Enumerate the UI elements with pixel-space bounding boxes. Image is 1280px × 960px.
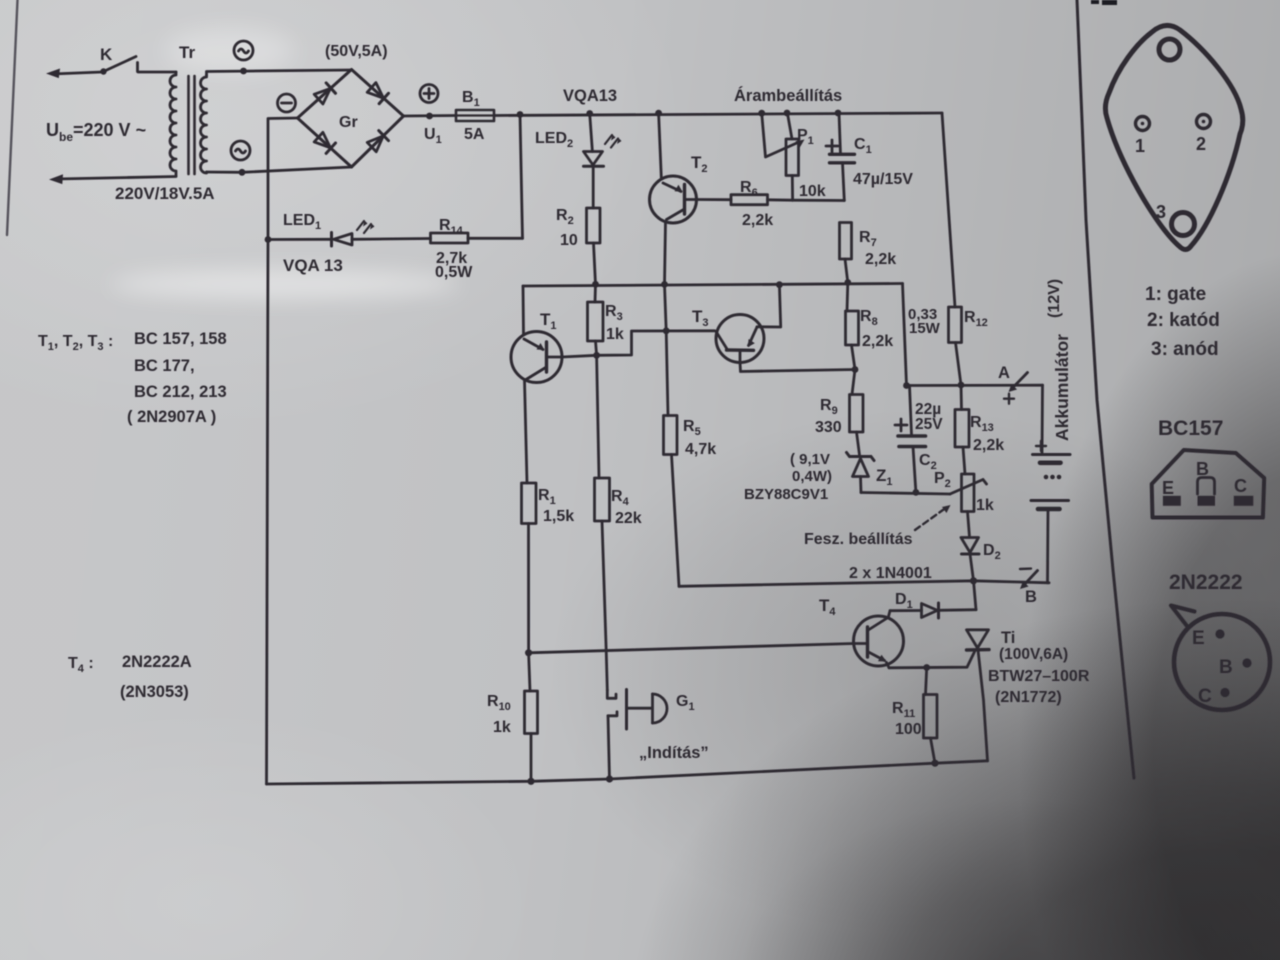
svg-text:VQA 13: VQA 13 [283, 256, 343, 275]
svg-text:BTW27–100R: BTW27–100R [988, 668, 1090, 685]
svg-text:Gr: Gr [339, 114, 358, 131]
dashed arrow head [942, 505, 951, 513]
svg-text:T1: T1 [540, 310, 557, 332]
label 330 [815, 419, 842, 436]
label Ti [1001, 629, 1015, 647]
LED1 [268, 233, 431, 247]
label LED2 [535, 130, 573, 150]
2N2222 tab [1171, 606, 1195, 627]
svg-text:1: gate: 1: gate [1145, 284, 1206, 305]
label 47u/15V [853, 171, 913, 188]
svg-text:C: C [1234, 476, 1247, 496]
transistor T3 [716, 285, 855, 372]
label B [1025, 588, 1037, 606]
svg-text:3: anód: 3: anód [1151, 339, 1219, 360]
svg-text:T4 :: T4 : [68, 655, 94, 675]
cut-off marks top edge [1091, 0, 1117, 5]
svg-text:R7: R7 [859, 229, 877, 249]
svg-text:R1: R1 [538, 487, 556, 507]
svg-text:D1: D1 [895, 591, 913, 611]
svg-text:( 2N2907A ): ( 2N2907A ) [127, 408, 216, 426]
svg-text:P2: P2 [934, 470, 951, 490]
label 1: gate [1145, 284, 1206, 305]
transformer secondary winding [201, 75, 207, 173]
BC157 leads [1163, 496, 1253, 506]
label pin 3 [1156, 202, 1166, 222]
terminal A arrow [1009, 373, 1028, 393]
svg-text:2: 2 [1196, 134, 1206, 154]
wire rail right corner down to R12 [942, 113, 955, 307]
label T1 [540, 310, 557, 332]
label E lead [1162, 478, 1174, 498]
resistor R9 [850, 370, 864, 456]
potentiometer P1 [762, 113, 805, 200]
label R12 [964, 309, 988, 329]
svg-text:22k: 22k [615, 510, 642, 527]
svg-text:T4: T4 [819, 596, 836, 618]
wire T4 emitter to Ti gate [889, 652, 975, 671]
transformer core [189, 76, 195, 174]
svg-text:Akkumulátor: Akkumulátor [1052, 334, 1072, 441]
bridge diode top-right [367, 82, 389, 103]
label 9,1V [790, 451, 830, 468]
label 100V 6A [999, 646, 1068, 663]
resistor R2 [587, 208, 601, 284]
label 220V/18V 5A [115, 184, 215, 203]
label B1 [462, 89, 480, 109]
label 15W [909, 320, 941, 337]
label 2,2k R7 [865, 251, 896, 268]
svg-text:2,2k: 2,2k [973, 437, 1004, 454]
svg-text:4,7k: 4,7k [685, 441, 716, 458]
label 1k R3 [606, 326, 624, 343]
wire bus dot down to D1 line [974, 581, 977, 610]
label D2 [983, 542, 1001, 562]
label 22u [915, 401, 941, 418]
label VQA 13 [283, 256, 343, 275]
wire mains lower with arrow [49, 174, 176, 184]
label R1 [538, 487, 556, 507]
label 1k R10 [493, 719, 511, 736]
label 10 [560, 232, 578, 249]
TO-3 pin 1 [1136, 117, 1150, 131]
terminal B arrow [1020, 571, 1038, 590]
label 0,33 [908, 306, 937, 323]
thyristor Ti [967, 630, 990, 761]
label B lead [1196, 459, 1209, 479]
svg-text:T2: T2 [691, 153, 708, 175]
label R2 [556, 207, 574, 227]
BC157 package outline [1152, 450, 1265, 518]
wire second bus [523, 279, 903, 288]
label R9 [820, 397, 838, 417]
label C pin [1198, 686, 1230, 707]
label Tr [179, 43, 195, 62]
wire base jog to T3 [597, 331, 715, 356]
bridge diode bottom-left [314, 132, 336, 153]
label 2,2k R13 [973, 437, 1004, 454]
svg-text:C2: C2 [919, 452, 937, 472]
label Gr [339, 114, 358, 131]
label transistor equivalents T4 [68, 653, 192, 701]
plus terminal circle [420, 85, 438, 103]
label R4 [611, 488, 630, 508]
diode D1 [890, 603, 976, 618]
svg-text:T1, T2, T3 :: T1, T2, T3 : [38, 333, 113, 353]
AC terminal circle bottom [231, 141, 250, 160]
svg-text:5A: 5A [464, 126, 485, 143]
paper edge top-left [7, 0, 18, 235]
label K [100, 45, 113, 64]
transistor T1 [511, 332, 597, 484]
svg-text:„Indítás”: „Indítás” [639, 744, 709, 762]
label BC157 [1158, 417, 1223, 440]
svg-text:2 x 1N4001: 2 x 1N4001 [849, 565, 932, 582]
label 2N2222 [1169, 571, 1243, 594]
node T3 base / R5 junction [663, 327, 670, 334]
svg-text:E: E [1162, 478, 1174, 498]
wire inner bottom bus [679, 577, 1049, 586]
svg-text:BC157: BC157 [1158, 417, 1223, 440]
label 100 [895, 721, 922, 738]
label E pin [1192, 628, 1225, 649]
capacitor C2 [898, 385, 926, 492]
svg-text:100: 100 [895, 721, 922, 738]
label R8 [860, 308, 878, 328]
svg-text:A: A [998, 364, 1010, 382]
svg-text:2,2k: 2,2k [862, 333, 893, 350]
label 3: anod [1151, 339, 1219, 360]
label 22k [615, 510, 642, 527]
LED1 emission arrows [357, 221, 375, 234]
svg-text:3: 3 [1156, 202, 1166, 222]
label Akkumulator rotated [1052, 334, 1072, 441]
plus sign C1 [826, 140, 838, 152]
label Inditas [639, 744, 709, 762]
svg-text:2N2222: 2N2222 [1169, 571, 1243, 594]
svg-text:B: B [1219, 657, 1233, 678]
LED2 emission arrows [605, 135, 622, 148]
AC terminal circle top [234, 41, 253, 60]
label R13 [970, 414, 994, 434]
svg-text:Ube=220 V ~: Ube=220 V ~ [46, 120, 146, 144]
plus sign C2 [895, 419, 907, 431]
svg-text:D2: D2 [983, 542, 1001, 562]
label 2,2k R6 [742, 212, 773, 229]
svg-text:(50V,5A): (50V,5A) [325, 43, 388, 60]
svg-text:K: K [100, 45, 113, 64]
transistor T2 [650, 113, 732, 284]
svg-text:R10: R10 [487, 693, 511, 713]
TO-3 top mounting hole [1159, 39, 1180, 60]
wire Z1 node to P2 tap [861, 489, 950, 496]
label R5 [683, 418, 701, 438]
transistor T4 [854, 611, 904, 668]
resistor R7 [840, 223, 852, 283]
resistor R5 [664, 284, 680, 586]
node T4 base tee [525, 649, 532, 656]
label 2: katod [1147, 310, 1220, 331]
svg-text:R12: R12 [964, 309, 988, 329]
resistor R10 [525, 653, 538, 782]
svg-text:1k: 1k [976, 497, 994, 514]
svg-text:1k: 1k [493, 719, 511, 736]
svg-text:1: 1 [1135, 136, 1145, 156]
fuse B1 [456, 110, 494, 121]
wire bus end down to A line [903, 284, 907, 386]
resistor R12 [949, 307, 962, 385]
LED2 [584, 114, 604, 209]
svg-text:47µ/15V: 47µ/15V [853, 171, 913, 188]
svg-text:BC 177,: BC 177, [134, 357, 195, 375]
label 2,2k R8 [862, 333, 893, 350]
switch K [100, 57, 176, 75]
svg-text:B1: B1 [462, 89, 480, 109]
TO-3 package outline [1105, 25, 1242, 249]
label 5A [464, 126, 485, 143]
wire left vertical to bottom bus [265, 236, 272, 784]
wire outer bottom bus [267, 760, 988, 785]
svg-text:R2: R2 [556, 207, 574, 227]
label 10k [799, 183, 826, 200]
svg-text:R13: R13 [970, 414, 994, 434]
svg-text:BC 157, 158: BC 157, 158 [134, 330, 227, 348]
svg-text:330: 330 [815, 419, 842, 436]
label R10 [487, 693, 511, 713]
label 0,4W [792, 468, 832, 485]
minus sign at B [1020, 567, 1031, 570]
label 2,7k [436, 250, 467, 267]
svg-text:220V/18V.5A: 220V/18V.5A [115, 184, 215, 203]
zener diode Z1 [847, 453, 875, 493]
label 12V rotated [1046, 279, 1063, 318]
diode D2 [961, 538, 979, 581]
wire main top rail [494, 110, 942, 118]
svg-text:10: 10 [560, 232, 578, 249]
label P2 [934, 470, 951, 490]
svg-text:( 9,1V: ( 9,1V [790, 451, 830, 468]
bridge diode top-left [314, 83, 336, 104]
dashed arrow to P2 [915, 509, 945, 531]
label Ube 220V [46, 120, 146, 144]
label C lead [1234, 476, 1247, 496]
TO-3 bottom mounting hole [1172, 213, 1195, 236]
plus sign at A [1004, 394, 1014, 404]
wire left rail from bridge minus corner [268, 118, 298, 240]
svg-text:Ti: Ti [1001, 629, 1015, 647]
label (50V,5A) [325, 43, 388, 60]
svg-text:R5: R5 [683, 418, 701, 438]
label BTW27-100R [988, 668, 1090, 685]
svg-text:10k: 10k [799, 183, 826, 200]
svg-text:Tr: Tr [179, 43, 195, 62]
TO-3 pin 2 [1197, 115, 1211, 129]
wire bus left corner down to T1 [522, 286, 525, 334]
label pin 1 [1135, 136, 1145, 156]
wire secondary bottom to bridge [207, 167, 352, 176]
wire mains upper with arrow [46, 69, 102, 79]
label 0,5W [435, 264, 473, 281]
svg-text:B: B [1196, 459, 1209, 479]
node T1 base junction [593, 352, 600, 359]
svg-text:15W: 15W [909, 320, 941, 337]
svg-text:G1: G1 [676, 693, 695, 713]
svg-text:0,4W): 0,4W) [792, 468, 832, 485]
capacitor C1 [830, 113, 855, 200]
label C1 [854, 136, 872, 156]
svg-text:B: B [1025, 588, 1037, 606]
label R14 [439, 217, 464, 237]
label U1 [424, 126, 442, 146]
label LED1 [283, 212, 321, 232]
resistor R11 [924, 668, 938, 764]
svg-text:T3: T3 [692, 307, 709, 329]
bridge diode bottom-right [367, 131, 389, 153]
battery Akkumulator [1031, 385, 1070, 583]
svg-text:1,5k: 1,5k [543, 508, 574, 525]
svg-text:R9: R9 [820, 397, 838, 417]
node R8/R9/T3 emitter [852, 366, 859, 373]
label 2N1772 [995, 689, 1062, 706]
svg-text:25V: 25V [915, 416, 943, 433]
wire riser R14 to rail [520, 115, 523, 239]
svg-text:Z1: Z1 [876, 466, 893, 488]
svg-text:Fesz. beállítás: Fesz. beállítás [804, 531, 913, 548]
resistor R1 [522, 483, 537, 653]
svg-text:LED1: LED1 [283, 212, 321, 232]
label BZY88C9V1 [744, 486, 828, 503]
label B pin [1219, 657, 1252, 678]
label D1 [895, 591, 913, 611]
svg-text:LED2: LED2 [535, 130, 573, 150]
label pin 2 [1196, 134, 1206, 154]
label 4,7k [685, 441, 716, 458]
minus terminal circle [278, 94, 296, 112]
svg-text:2N2222A: 2N2222A [122, 653, 192, 671]
label A [998, 364, 1010, 382]
pushbutton G1 [607, 690, 667, 780]
svg-text:2: katód: 2: katód [1147, 310, 1220, 331]
wire A line [903, 382, 1042, 389]
bridge rectifier Gr diamond [298, 70, 404, 168]
label R6 [740, 179, 758, 199]
svg-text:C1: C1 [854, 136, 872, 156]
svg-text:R8: R8 [860, 308, 878, 328]
label T4 [819, 596, 836, 618]
label R11 [892, 700, 915, 720]
resistor R13 [955, 385, 969, 474]
svg-text:0,5W: 0,5W [435, 264, 473, 281]
label 2 x 1N4001 [849, 565, 932, 582]
resistor R14 [431, 233, 523, 243]
svg-text:C: C [1198, 686, 1212, 707]
svg-text:1k: 1k [606, 326, 624, 343]
label T2 [691, 153, 708, 175]
divider line [1077, 0, 1134, 778]
label Z1 [876, 466, 893, 488]
svg-text:2,2k: 2,2k [742, 212, 773, 229]
label C2 [919, 452, 937, 472]
resistor R8 [846, 283, 859, 370]
label 1,5k [543, 508, 574, 525]
svg-text:(2N3053): (2N3053) [120, 683, 189, 701]
label R7 [859, 229, 877, 249]
svg-text:Árambeállítás: Árambeállítás [734, 86, 842, 105]
label Arambeallitas [734, 86, 842, 105]
wire bridge output to fuse [404, 113, 457, 120]
svg-text:R11: R11 [892, 700, 915, 720]
label G1 [676, 693, 695, 713]
wire secondary top to bridge [207, 68, 352, 75]
plus sign battery [1036, 441, 1046, 451]
label R3 [605, 303, 623, 323]
potentiometer P2 [950, 474, 987, 537]
svg-text:VQA13: VQA13 [563, 87, 617, 105]
resistor R3 [588, 284, 604, 355]
label transistor equivalents T1 T2 T3 [38, 330, 227, 426]
svg-text:(2N1772): (2N1772) [995, 689, 1062, 706]
svg-text:R3: R3 [605, 303, 623, 323]
label Fesz. beallitas [804, 531, 913, 548]
label T3 [692, 307, 709, 329]
svg-text:(100V,6A): (100V,6A) [999, 646, 1068, 663]
svg-text:2,2k: 2,2k [865, 251, 896, 268]
svg-text:U1: U1 [424, 126, 442, 146]
2N2222 package outline [1174, 614, 1270, 710]
label VQA13 [563, 87, 617, 105]
svg-text:(12V): (12V) [1046, 279, 1063, 318]
wire T4 base [529, 644, 854, 653]
BC157 lead B tab [1198, 478, 1215, 495]
svg-text:BZY88C9V1: BZY88C9V1 [744, 486, 828, 503]
resistor R6 [731, 195, 793, 205]
svg-text:R4: R4 [611, 488, 630, 508]
resistor R4 [595, 355, 610, 690]
label 1k P2 [976, 497, 994, 514]
node wire P1/R6 to C1 bottom [793, 199, 845, 202]
svg-text:E: E [1192, 628, 1205, 649]
label 25V [915, 416, 943, 433]
svg-text:BC 212, 213: BC 212, 213 [134, 383, 227, 401]
label P1 [797, 127, 814, 147]
transformer primary winding [170, 72, 176, 176]
